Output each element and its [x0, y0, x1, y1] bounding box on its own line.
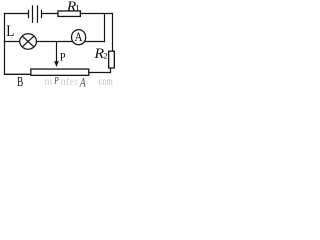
wire R2 bottom stub [110, 68, 112, 73]
ammeter letter A [75, 29, 83, 44]
svg-text:P: P [60, 51, 66, 63]
wire right rail to R2 [112, 13, 114, 51]
wire slider shaft [56, 42, 58, 62]
watermark fragment nfer [60, 76, 78, 88]
svg-text:com: com [99, 77, 114, 88]
watermark fragment com [99, 77, 114, 88]
wire middle: left rail to lamp [4, 41, 22, 43]
svg-text:A: A [75, 29, 83, 44]
wire junction vertical to ammeter branch [104, 13, 106, 42]
wire battery to R1 [42, 13, 59, 15]
battery plate short (left) [28, 10, 30, 18]
label P (slider) [60, 51, 66, 63]
svg-text:m: m [44, 75, 52, 88]
label R1 [66, 0, 80, 15]
rheostat body [31, 69, 89, 75]
resistor R2 body [109, 51, 115, 68]
lamp L circle with cross [20, 34, 37, 49]
label A terminal (italic, faded) [79, 76, 86, 89]
label B terminal [17, 75, 23, 89]
slider arrowhead [54, 61, 59, 67]
wire left rail [4, 13, 6, 75]
svg-text:B: B [17, 75, 23, 88]
battery plate tall [32, 5, 34, 23]
watermark fragment m [44, 75, 52, 88]
label R2 [93, 45, 107, 61]
wire bottom-left [4, 73, 32, 75]
wire middle: ammeter to junction [83, 41, 105, 43]
wire bottom-right [89, 72, 111, 74]
resistor R1 body [58, 11, 80, 17]
battery plate short (right) [41, 10, 43, 18]
svg-text:2: 2 [103, 51, 107, 61]
svg-text:P: P [53, 74, 59, 85]
svg-text:A: A [79, 76, 86, 88]
wire R1 to top-right corner [80, 13, 113, 15]
svg-text:1: 1 [75, 3, 80, 14]
wire top-left segment [4, 13, 28, 15]
svg-text:L: L [6, 23, 14, 40]
background [0, 0, 115, 88]
svg-text:nfer: nfer [60, 76, 78, 88]
ammeter A [72, 30, 86, 45]
label L [6, 23, 14, 40]
wire middle: lamp to ammeter [35, 41, 75, 43]
battery plate tall 2 [37, 5, 39, 23]
label P terminal (italic) [53, 74, 59, 85]
